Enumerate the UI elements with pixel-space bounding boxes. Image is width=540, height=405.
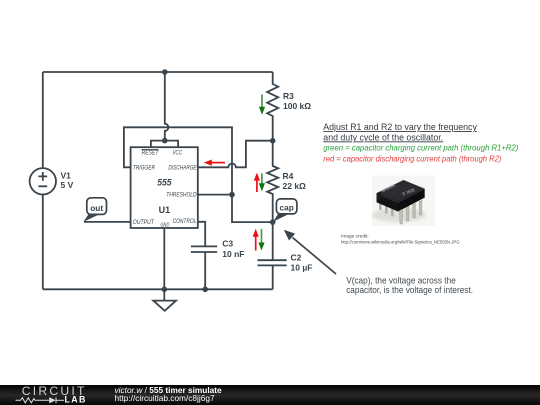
svg-text:10 µF: 10 µF — [291, 263, 313, 273]
svg-text:C3: C3 — [222, 239, 233, 249]
chip front-right face — [398, 189, 425, 212]
node: R3/R4/discharge junction — [270, 138, 276, 144]
svg-text:U1: U1 — [159, 205, 171, 215]
junction dots — [162, 69, 276, 292]
pin label RESET with overline — [142, 149, 160, 156]
op-amp U1: 555 timer IC body — [131, 147, 198, 228]
wire: V1 top lead to top rail — [42, 72, 44, 168]
svg-text:C2: C2 — [291, 252, 302, 262]
svg-text:red = capacitor discharging cu: red = capacitor discharging current path… — [323, 155, 501, 164]
red arrow: discharge pin current (pointing left) — [204, 160, 225, 166]
svg-text:THRESHOLD: THRESHOLD — [166, 191, 197, 198]
wire: top rail — [43, 71, 273, 73]
svg-text:Adjust R1 and R2 to vary the f: Adjust R1 and R2 to vary the frequency — [323, 122, 477, 132]
wire: V1 bottom lead to bottom rail — [42, 195, 44, 290]
resistor R4 — [267, 141, 278, 222]
node cap — [270, 219, 276, 225]
svg-text:Image credit:: Image credit: — [341, 234, 369, 240]
node: top rail / vcc drop — [162, 69, 168, 75]
wire: C2 bottom to bottom rail — [272, 265, 274, 289]
front row legs — [400, 200, 423, 224]
node label bubble "cap" — [273, 199, 297, 222]
svg-text:OUTPUT: OUTPUT — [133, 219, 155, 226]
wire: threshold pin to trigger net — [198, 194, 232, 196]
svg-text:R3: R3 — [283, 91, 294, 101]
node: threshold joins trigger net — [229, 192, 235, 198]
wire: control pin to C3 top — [198, 222, 205, 247]
svg-text:555: 555 — [157, 177, 172, 187]
label V1 value — [61, 170, 74, 190]
photo of NE555N chip — [372, 176, 435, 227]
logo squiggle and diode — [16, 397, 65, 403]
red arrow: R4 discharge current — [254, 173, 260, 192]
wire: output pin to out bubble — [84, 221, 131, 223]
ground — [153, 289, 176, 311]
svg-text:V1: V1 — [61, 170, 72, 180]
green arrow: R3 charging current — [259, 94, 265, 114]
svg-text:CONTROL: CONTROL — [173, 218, 197, 225]
node: reset-vcc loop — [162, 138, 168, 144]
svg-text:capacitor, is the voltage of i: capacitor, is the voltage of interest. — [346, 285, 473, 295]
chip front-left face — [377, 193, 399, 211]
wire: bottom rail — [43, 288, 273, 290]
resistor R3 — [267, 72, 278, 141]
label R3 value — [283, 91, 311, 111]
capacitor C2 — [258, 260, 287, 265]
svg-text:TRIGGER: TRIGGER — [133, 164, 155, 171]
wire: VCC drop with hop over trigger wire — [165, 72, 169, 141]
svg-text:100 kΩ: 100 kΩ — [283, 101, 311, 111]
red arrow: C2 discharge current — [253, 229, 259, 251]
chip markings — [377, 180, 425, 193]
footer bar — [0, 385, 540, 405]
annotation arrow pointing at cap node — [284, 230, 336, 274]
voltage source V1 — [30, 168, 56, 194]
svg-text:RESET: RESET — [142, 149, 160, 156]
label C2 value — [291, 252, 313, 272]
wire: gnd pin of U1 down to bottom rail — [163, 228, 165, 289]
node label bubble "out" — [84, 198, 107, 222]
svg-text:http://circuitlab.com/c8jj6g7: http://circuitlab.com/c8jj6g7 — [115, 393, 215, 403]
chip body top face — [377, 180, 425, 202]
node: gnd on bottom rail — [162, 287, 168, 293]
svg-text:out: out — [90, 203, 103, 213]
notch detail — [377, 191, 382, 201]
svg-text:GND: GND — [160, 222, 169, 228]
svg-text:22 kΩ: 22 kΩ — [283, 181, 307, 191]
svg-text:LAB: LAB — [65, 395, 87, 405]
svg-text:R4: R4 — [283, 171, 294, 181]
wire: discharge pin with hop, up to R3/R4 junction — [198, 141, 273, 168]
svg-text:DISCHARGE: DISCHARGE — [168, 164, 197, 171]
svg-text:10 nF: 10 nF — [222, 249, 244, 259]
wire: trigger net (trigger pin, up, across, down to cap node) — [124, 127, 273, 222]
wire: C3 bottom to bottom rail — [204, 252, 206, 289]
label C3 value — [222, 239, 244, 259]
svg-text:green = capacitor charging cur: green = capacitor charging current path … — [323, 144, 518, 153]
green arrow: C2 charging current — [258, 229, 264, 251]
label R4 value — [283, 171, 307, 191]
node: C3 on bottom rail — [202, 287, 208, 293]
back row legs — [379, 197, 394, 217]
svg-text:VCC: VCC — [172, 149, 182, 156]
svg-text:V(cap), the voltage across the: V(cap), the voltage across the — [346, 275, 456, 285]
svg-text:5 V: 5 V — [61, 180, 74, 190]
capacitor C3 — [191, 246, 217, 252]
wire: reset-vcc loop — [151, 141, 178, 148]
svg-text:and duty cycle of the oscillat: and duty cycle of the oscillator. — [323, 132, 443, 142]
wire: cap node down to C2 top — [272, 222, 274, 260]
green arrow: R4 charging current — [259, 173, 265, 191]
svg-text:cap: cap — [280, 202, 294, 212]
svg-text:http://commons.wikimedia.org/w: http://commons.wikimedia.org/wiki/File:S… — [341, 239, 460, 245]
